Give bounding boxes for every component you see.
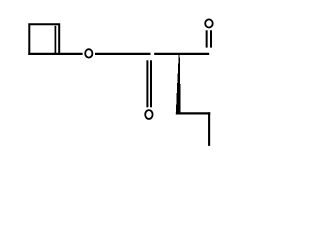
wire: bond ether O to carbonyl C [95,53,151,55]
node O (ester carbonyl oxygen) [145,110,152,119]
cyclobutene ring double bond inner line [54,26,56,53]
wire: bond carbonyl C to stereocenter C and aldehyde C [154,53,209,55]
ester C=O double bond [146,60,148,107]
cyclobutene ring [29,24,59,55]
wedge bond (stereocenter, pointing down) [176,55,181,113]
aldehyde C=O double bond [206,30,208,47]
wire: bond ring to ether O [28,53,82,55]
node O (ether oxygen) [85,49,92,57]
node O (aldehyde oxygen) [205,19,213,27]
wire: propyl chain horizontal bond [176,112,211,114]
wire: propyl chain terminal vertical bond [208,112,210,146]
